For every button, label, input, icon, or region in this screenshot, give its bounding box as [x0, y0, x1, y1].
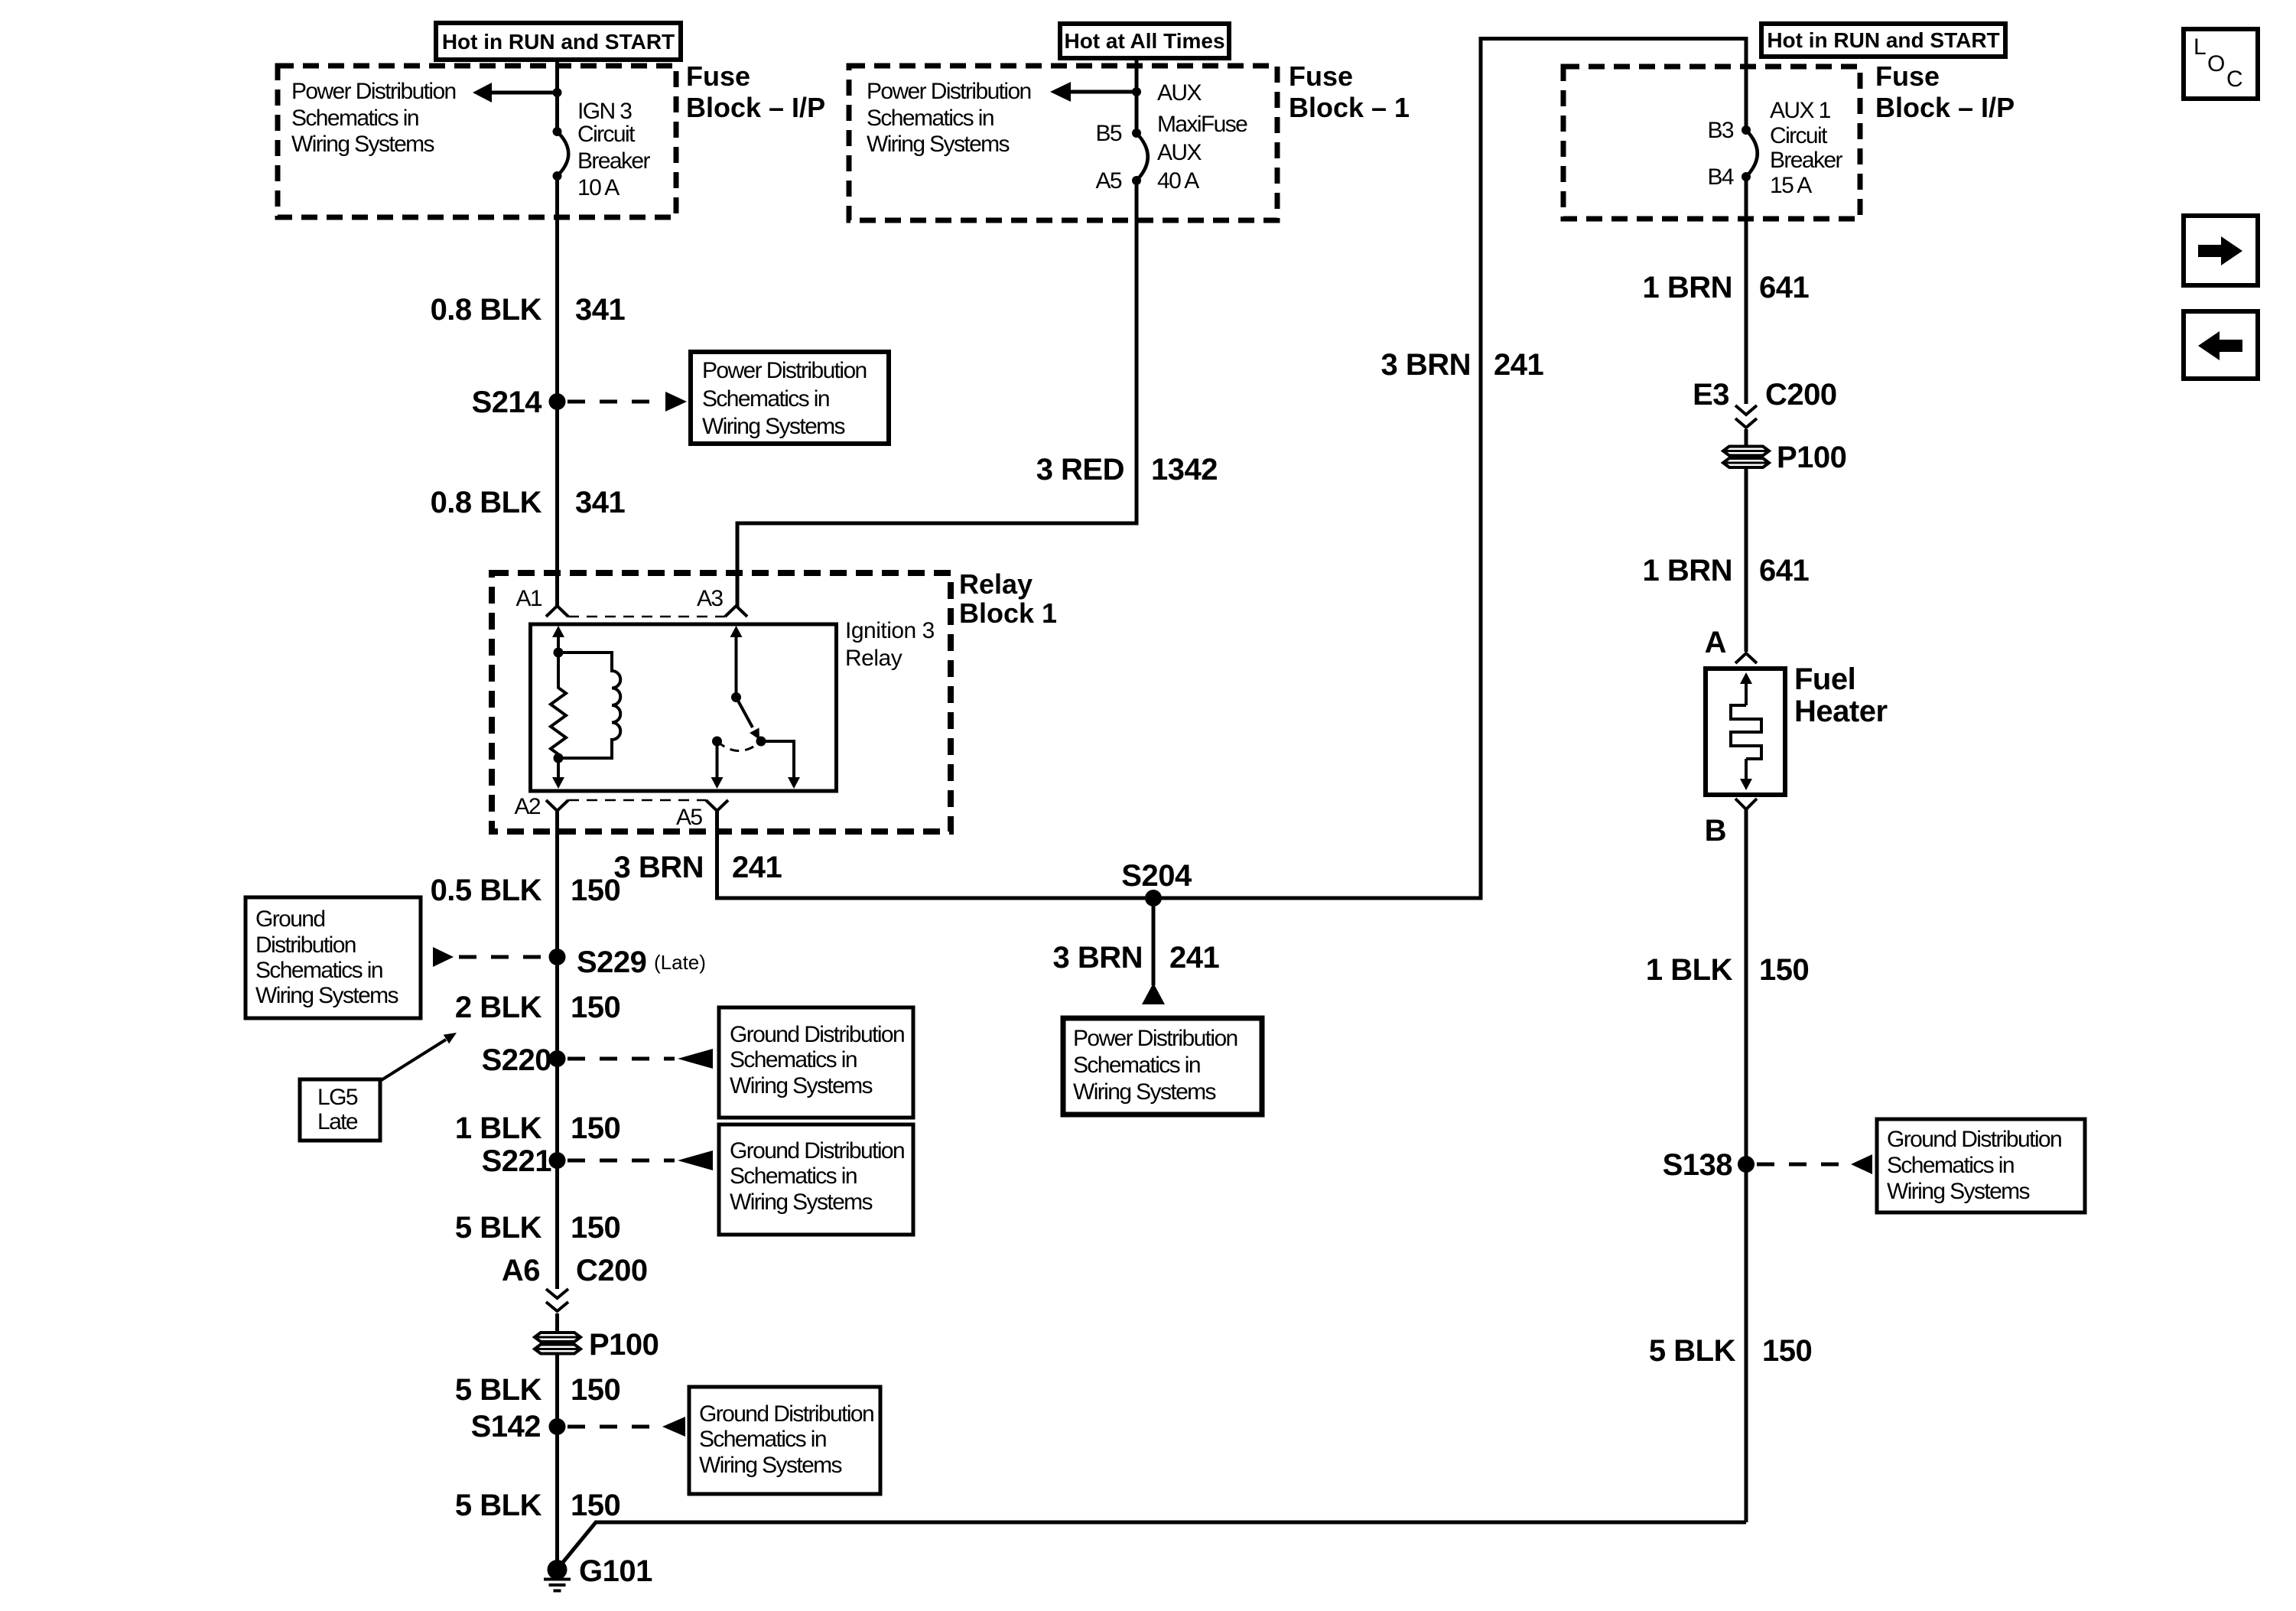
label Power Distribution Schematics in Wiring Systems (middle fuse box)	[867, 79, 1031, 157]
svg-text:E3: E3	[1693, 378, 1729, 412]
svg-text:Wiring Systems: Wiring Systems	[255, 983, 398, 1008]
label Fuse Block - I/P (left)	[686, 60, 825, 123]
ground G101	[544, 1560, 571, 1591]
svg-text:40 A: 40 A	[1157, 168, 1199, 194]
svg-text:S204: S204	[1121, 859, 1192, 893]
label 1 BRN 641 (upper)	[1642, 271, 1809, 304]
label AUX 1 Circuit Breaker 15 A	[1770, 98, 1842, 198]
node Ground Distribution Schematics reference box (S220)	[719, 1007, 913, 1118]
svg-text:S142: S142	[471, 1410, 541, 1443]
node Ground Distribution Schematics reference box (S142)	[689, 1387, 880, 1494]
svg-text:Ground Distribution: Ground Distribution	[1887, 1127, 2061, 1152]
svg-text:1 BLK: 1 BLK	[1646, 953, 1733, 987]
svg-text:AUX: AUX	[1157, 80, 1202, 106]
svg-text:2 BLK: 2 BLK	[455, 991, 542, 1024]
pin A5 connector chevron	[706, 800, 728, 811]
svg-text:0.8 BLK: 0.8 BLK	[431, 486, 542, 519]
svg-text:Schematics in: Schematics in	[730, 1163, 857, 1189]
svg-text:Circuit: Circuit	[1770, 123, 1828, 148]
svg-text:150: 150	[1759, 953, 1809, 987]
svg-text:Fuse: Fuse	[686, 60, 750, 92]
svg-text:241: 241	[732, 851, 782, 884]
svg-text:Block 1: Block 1	[959, 597, 1057, 629]
label Fuse Block - 1	[1289, 60, 1410, 123]
svg-text:A5: A5	[1096, 168, 1122, 194]
wire thin dashed connector line A2-A5	[568, 799, 706, 802]
label IGN 3 Circuit Breaker 10 A	[577, 99, 650, 200]
svg-text:Wiring Systems: Wiring Systems	[1073, 1079, 1216, 1105]
splice S138	[1738, 1156, 1755, 1173]
pin label E3 / connector label C200	[1693, 378, 1837, 412]
svg-text:Ground: Ground	[255, 906, 324, 932]
svg-text:341: 341	[575, 293, 625, 327]
svg-text:S229: S229	[577, 945, 646, 979]
svg-text:241: 241	[1494, 348, 1543, 382]
label Fuse Block - I/P (right)	[1875, 60, 2015, 123]
svg-text:150: 150	[571, 1111, 620, 1145]
heating element (square-wave resistor)	[1731, 705, 1761, 759]
node switch pivot	[731, 692, 741, 702]
svg-text:Schematics in: Schematics in	[1887, 1153, 2014, 1178]
wire 3 BRN 241 stub from S204 down	[1152, 898, 1156, 985]
fuel heater (box)	[1706, 669, 1785, 795]
circuit breaker IGN 3 10 A	[553, 127, 569, 181]
resistor (relay coil suppression)	[551, 653, 566, 758]
svg-text:Fuse: Fuse	[1289, 60, 1353, 92]
switch movable arm with arrowhead	[737, 698, 760, 740]
svg-text:150: 150	[571, 1373, 620, 1407]
svg-text:MaxiFuse: MaxiFuse	[1157, 112, 1247, 137]
label 0.8 BLK 341 (lower)	[431, 486, 626, 519]
svg-text:Relay: Relay	[959, 568, 1033, 600]
splice S220	[549, 1050, 566, 1067]
wire 5 BLK 150 from P100 to G101	[555, 1353, 559, 1563]
wire arrow to Power Distribution Schematics (middle)	[1050, 82, 1133, 102]
svg-text:G101: G101	[579, 1554, 652, 1588]
node Power Distribution Schematics reference box (S204)	[1063, 1018, 1262, 1115]
svg-text:P100: P100	[589, 1328, 659, 1362]
svg-text:Block – 1: Block – 1	[1289, 92, 1410, 123]
svg-text:3 BRN: 3 BRN	[1381, 348, 1471, 382]
wire dashed leader from S214 to Power Distribution box	[567, 392, 687, 412]
label Fuel Heater	[1794, 662, 1888, 728]
label 3 BRN 241 (below S204)	[1052, 941, 1219, 975]
node coil bottom junction	[554, 753, 564, 763]
svg-text:B3: B3	[1708, 118, 1734, 143]
splice S142	[549, 1418, 566, 1435]
wire 1 BLK 150 from fuel heater B down to bottom corner	[1745, 809, 1748, 1522]
svg-text:Schematics in: Schematics in	[291, 106, 418, 131]
relay block 1 (dashed box)	[492, 573, 951, 832]
svg-text:S221: S221	[482, 1144, 552, 1178]
wire dashed leader from S138 to Ground Distribution box	[1757, 1154, 1872, 1174]
pin label A6 / connector label C200 (left)	[502, 1254, 648, 1287]
wire coil input arrow from A1	[552, 626, 564, 653]
svg-text:L: L	[2194, 34, 2206, 60]
node junction dot feeding Power Distribution arrow	[553, 88, 562, 97]
svg-text:Schematics in: Schematics in	[255, 958, 382, 983]
svg-text:(Late): (Late)	[654, 951, 706, 974]
svg-text:150: 150	[571, 1211, 620, 1245]
wire 0.5 BLK 150 from relay A2 down left column	[555, 811, 559, 1289]
node Ground Distribution Schematics reference box (S138)	[1877, 1119, 2085, 1212]
pin A connector chevron (fuel heater)	[1735, 653, 1757, 663]
svg-text:1342: 1342	[1151, 453, 1218, 487]
label 1 BLK 150	[1646, 953, 1809, 987]
label 5 BLK 150 (below P100)	[455, 1373, 620, 1407]
svg-text:1 BRN: 1 BRN	[1642, 271, 1732, 304]
wire bottom run from right column to G101	[561, 1522, 1746, 1565]
wire switch right contact stub arrow	[761, 741, 800, 789]
svg-text:5 BLK: 5 BLK	[455, 1373, 542, 1407]
svg-text:641: 641	[1759, 271, 1809, 304]
svg-text:A5: A5	[676, 805, 702, 830]
svg-text:S214: S214	[472, 386, 543, 419]
svg-text:150: 150	[571, 874, 620, 907]
splice S214	[549, 393, 566, 410]
pin A3 connector chevron	[725, 606, 747, 617]
node Hot at All Times (middle header)	[1060, 24, 1229, 58]
svg-text:5 BLK: 5 BLK	[1649, 1334, 1736, 1368]
fuse block I/P (left dashed box)	[278, 66, 676, 217]
svg-text:AUX: AUX	[1157, 140, 1202, 165]
svg-text:Wiring Systems: Wiring Systems	[702, 414, 845, 439]
svg-text:Wiring Systems: Wiring Systems	[1887, 1179, 2030, 1204]
svg-text:Ground Distribution: Ground Distribution	[730, 1138, 904, 1163]
splice S204	[1145, 890, 1162, 906]
svg-text:15 A: 15 A	[1770, 173, 1812, 198]
svg-text:Wiring Systems: Wiring Systems	[867, 132, 1010, 157]
svg-text:10 A: 10 A	[577, 175, 620, 200]
svg-text:641: 641	[1759, 554, 1809, 587]
label Relay Block 1	[959, 568, 1057, 629]
svg-text:A3: A3	[697, 586, 723, 611]
label Ignition 3 Relay	[845, 618, 935, 671]
svg-text:AUX 1: AUX 1	[1770, 98, 1831, 123]
node switch contact right	[756, 737, 766, 747]
label 1 BLK 150 (left column)	[455, 1111, 620, 1145]
svg-text:P100: P100	[1777, 441, 1846, 474]
svg-text:Power Distribution: Power Distribution	[867, 79, 1031, 104]
wire from Hot at All Times into fuse block 1	[1135, 58, 1139, 129]
label 3 RED 1342	[1036, 453, 1218, 487]
wire arrow from LG5 box to 2 BLK wire	[380, 1033, 457, 1081]
fuse block I/P (right dashed box)	[1563, 67, 1860, 219]
svg-text:0.8 BLK: 0.8 BLK	[431, 293, 542, 327]
wire fuel heater input arrow	[1740, 672, 1752, 705]
node junction dot feeding Power Distribution arrow (middle)	[1132, 87, 1141, 96]
wire fuel heater output arrow	[1740, 759, 1752, 790]
svg-text:A: A	[1705, 626, 1726, 659]
svg-text:Wiring Systems: Wiring Systems	[730, 1073, 873, 1098]
relay U1 Ignition 3 Relay (solid box)	[531, 624, 837, 791]
node Hot in RUN and START (left header)	[436, 23, 681, 60]
svg-text:Power Distribution: Power Distribution	[1073, 1026, 1237, 1051]
wire 3 RED 1342 from AUX fuse to relay A3	[737, 181, 1137, 607]
pin B connector chevron (fuel heater)	[1735, 799, 1757, 809]
svg-text:Late: Late	[317, 1109, 358, 1134]
wire switch input arrow from A3	[730, 626, 743, 697]
svg-text:S138: S138	[1663, 1148, 1733, 1182]
svg-text:Ground Distribution: Ground Distribution	[699, 1401, 873, 1427]
splice S229	[549, 949, 566, 965]
svg-text:A6: A6	[502, 1254, 540, 1287]
grommet P100 (left)	[535, 1333, 581, 1354]
circuit breaker AUX 1 15 A (B3-B4)	[1742, 125, 1758, 181]
svg-text:3 RED: 3 RED	[1036, 453, 1124, 487]
svg-text:0.5 BLK: 0.5 BLK	[431, 874, 542, 907]
svg-text:241: 241	[1169, 941, 1219, 975]
svg-text:Wiring Systems: Wiring Systems	[730, 1190, 873, 1215]
label 3 BRN 241 (at relay A5)	[613, 851, 782, 884]
svg-text:Power Distribution: Power Distribution	[702, 358, 867, 383]
svg-text:Ignition 3: Ignition 3	[845, 618, 935, 643]
svg-text:B5: B5	[1096, 121, 1122, 146]
connector C200 pin A6 (double chevron)	[546, 1289, 568, 1311]
svg-text:150: 150	[1762, 1334, 1812, 1368]
svg-text:C200: C200	[1765, 378, 1837, 412]
label 5 BLK 150 (above G101)	[455, 1489, 620, 1522]
svg-text:A2: A2	[515, 794, 541, 819]
svg-text:Wiring Systems: Wiring Systems	[291, 132, 434, 157]
node LOC legend box	[2184, 29, 2258, 99]
pin A2 connector chevron	[546, 800, 568, 811]
wire dashed alternate-position arc between contacts	[717, 741, 762, 751]
svg-text:3 BRN: 3 BRN	[1052, 941, 1143, 975]
svg-text:1 BRN: 1 BRN	[1642, 554, 1732, 587]
fuse block 1 (middle dashed box)	[849, 66, 1277, 220]
svg-text:Circuit: Circuit	[577, 122, 636, 147]
svg-text:Fuel: Fuel	[1794, 662, 1855, 696]
svg-text:Relay: Relay	[845, 646, 902, 671]
svg-text:C: C	[2226, 67, 2242, 92]
svg-text:S220: S220	[482, 1043, 551, 1077]
node Hot in RUN and START (right header)	[1761, 24, 2005, 57]
svg-text:Block – I/P: Block – I/P	[1875, 92, 2015, 123]
inductor relay coil	[558, 653, 620, 758]
svg-text:Heater: Heater	[1794, 695, 1888, 728]
node back arrow legend box	[2184, 311, 2258, 379]
svg-text:Hot at All Times: Hot at All Times	[1064, 29, 1224, 53]
svg-text:341: 341	[575, 486, 625, 519]
wire arrow from Power Distribution Schematics to S204	[1142, 983, 1165, 1004]
wire 3 BRN 241 from relay A5 right and up to AUX 1 breaker	[717, 39, 1747, 899]
wire short segment C200 to P100 (left)	[555, 1313, 559, 1333]
label S229 (Late)	[577, 945, 706, 979]
wire 1 BRN 641 from AUX 1 breaker to C200	[1745, 177, 1748, 404]
wire arrow to Power Distribution Schematics (left)	[473, 83, 554, 103]
svg-text:IGN 3: IGN 3	[577, 99, 632, 124]
svg-text:Schematics in: Schematics in	[699, 1427, 826, 1452]
svg-text:5 BLK: 5 BLK	[455, 1211, 542, 1245]
node switch contact left	[712, 737, 722, 747]
pin A1 connector chevron	[546, 606, 568, 617]
wire from Hot in RUN and START into fuse block	[555, 60, 559, 128]
wire dashed leader from S142 to Ground Distribution box	[567, 1417, 685, 1437]
svg-text:Breaker: Breaker	[577, 148, 650, 174]
svg-text:Schematics in: Schematics in	[867, 106, 994, 131]
wire switch output arrow to A5	[711, 741, 724, 789]
svg-text:Fuse: Fuse	[1875, 60, 1940, 92]
splice S221	[549, 1152, 566, 1169]
node Ground Distribution Schematics reference box (S229, left)	[246, 897, 421, 1018]
label 3 BRN 241 (vertical riser)	[1381, 348, 1543, 382]
grommet P100 (right)	[1723, 447, 1769, 468]
label 1 BRN 641 (lower)	[1642, 554, 1809, 587]
node coil top junction	[554, 648, 564, 658]
svg-text:150: 150	[571, 991, 620, 1024]
svg-text:C200: C200	[576, 1254, 648, 1287]
wire short segment C200 to P100	[1745, 429, 1748, 447]
wire coil output arrow to A2	[552, 758, 564, 789]
wire 1 BRN 641 from P100 to fuel heater pin A	[1745, 467, 1748, 652]
svg-text:Hot in RUN and START: Hot in RUN and START	[1767, 28, 1999, 52]
wire thin dashed connector line A1-A3	[568, 616, 725, 618]
svg-text:Block – I/P: Block – I/P	[686, 92, 825, 123]
svg-text:150: 150	[571, 1489, 620, 1522]
node Ground Distribution Schematics reference box (S221)	[719, 1124, 913, 1235]
svg-text:Ground Distribution: Ground Distribution	[730, 1022, 904, 1047]
svg-text:O: O	[2207, 51, 2224, 76]
svg-text:Schematics in: Schematics in	[1073, 1053, 1200, 1078]
node LG5 Late box	[300, 1079, 380, 1141]
svg-text:Schematics in: Schematics in	[730, 1047, 857, 1072]
wire dashed leader from S220 to Ground Distribution box	[567, 1049, 713, 1069]
label AUX MaxiFuse AUX 40 A	[1157, 80, 1247, 194]
label 0.8 BLK 341 (upper)	[431, 293, 626, 327]
svg-text:5 BLK: 5 BLK	[455, 1489, 542, 1522]
wire 0.8 BLK 341 from breaker to relay A1	[555, 176, 559, 607]
wire dashed leader from Ground Distribution box to S229	[433, 947, 546, 967]
svg-text:Power Distribution: Power Distribution	[291, 79, 456, 104]
svg-text:Breaker: Breaker	[1770, 148, 1842, 173]
node Power Distribution Schematics reference box (S214)	[691, 352, 889, 444]
wire dashed leader from S221 to Ground Distribution box	[567, 1150, 713, 1170]
svg-text:Wiring Systems: Wiring Systems	[699, 1453, 842, 1478]
svg-text:Hot in RUN and START: Hot in RUN and START	[442, 30, 675, 54]
svg-text:1 BLK: 1 BLK	[455, 1111, 542, 1145]
node forward arrow legend box	[2184, 216, 2258, 285]
label 0.5 BLK 150	[431, 874, 621, 907]
label 5 BLK 150 (above A6)	[455, 1211, 620, 1245]
fuse AUX MaxiFuse AUX 40 A (B5-A5)	[1132, 129, 1148, 185]
svg-text:Schematics in: Schematics in	[702, 386, 829, 412]
label 5 BLK 150 (right column)	[1649, 1334, 1812, 1368]
label Power Distribution Schematics in Wiring Systems (left fuse box)	[291, 79, 456, 157]
svg-text:LG5: LG5	[317, 1085, 358, 1110]
svg-text:Distribution: Distribution	[255, 932, 356, 958]
svg-text:A1: A1	[516, 586, 542, 611]
svg-text:B: B	[1705, 814, 1726, 848]
connector C200 pin E3 (double chevron)	[1735, 405, 1757, 428]
svg-text:B4: B4	[1708, 164, 1734, 190]
svg-text:3 BRN: 3 BRN	[613, 851, 704, 884]
label 2 BLK 150	[455, 991, 620, 1024]
